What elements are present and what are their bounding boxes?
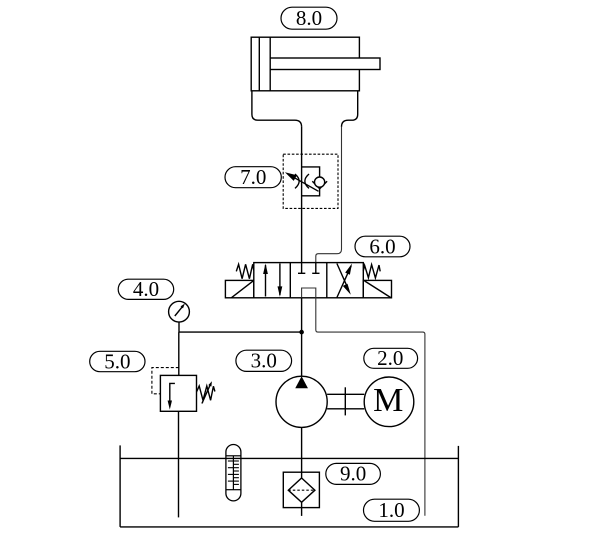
- wire T valve to tank: [316, 298, 425, 516]
- junction dot: [299, 330, 304, 335]
- svg-text:M: M: [373, 382, 403, 419]
- relief valve spring: [197, 386, 215, 400]
- filter 9.0: [283, 472, 319, 516]
- shaft coupling: [327, 387, 364, 415]
- oil level gauge: [226, 445, 241, 501]
- wire A line cylinder to valve: [301, 127, 303, 263]
- wire B line cylinder to valve: [316, 127, 342, 263]
- label 6.0: [355, 234, 410, 258]
- right solenoid box: [363, 280, 391, 297]
- label 2.0: [364, 346, 418, 370]
- wire P valve to junction: [301, 298, 303, 377]
- right spring: [363, 265, 380, 278]
- left spring: [236, 264, 254, 278]
- throttle-check valve 7.0 dashed enclosure: [283, 154, 338, 208]
- left solenoid box: [225, 280, 253, 297]
- pressure gauge 4.0: [169, 301, 190, 332]
- relief valve pilot dashed line: [152, 368, 179, 394]
- svg-text:8.0: 8.0: [296, 6, 322, 30]
- throttle orifice arcs: [295, 174, 309, 188]
- check valve bypass loop: [302, 167, 320, 196]
- wire branch to gauge and relief valve: [179, 331, 302, 333]
- relief valve drain wire: [178, 411, 180, 517]
- cylinder rod: [270, 58, 380, 70]
- cylinder mounting funnel: [252, 91, 358, 127]
- pump 3.0: [276, 376, 327, 427]
- svg-text:3.0: 3.0: [251, 349, 277, 373]
- svg-text:9.0: 9.0: [340, 462, 366, 486]
- svg-text:1.0: 1.0: [378, 498, 404, 522]
- label 5.0: [90, 349, 145, 373]
- tank 1.0: [120, 445, 458, 527]
- check valve seat: [312, 181, 327, 188]
- relief valve 5.0 body: [160, 375, 196, 411]
- relief valve 5.0 inlet wire: [178, 332, 180, 375]
- label 9.0: [326, 462, 381, 486]
- svg-text:7.0: 7.0: [240, 165, 266, 189]
- cylinder 8.0 body: [251, 37, 359, 91]
- left position arrows: [263, 264, 282, 297]
- check valve ball: [315, 177, 325, 187]
- pump suction wire: [301, 427, 303, 478]
- right position crossed arrows: [337, 264, 352, 298]
- cylinder piston: [259, 37, 270, 91]
- directional valve 6.0 body: [254, 263, 363, 298]
- relief valve adjust arrow: [202, 381, 212, 403]
- label 7.0: [225, 165, 281, 189]
- label 3.0: [236, 349, 292, 373]
- label 8.0: [281, 6, 337, 30]
- svg-text:5.0: 5.0: [104, 349, 130, 373]
- svg-text:6.0: 6.0: [369, 234, 395, 258]
- label 1.0: [364, 498, 420, 522]
- svg-text:4.0: 4.0: [133, 277, 159, 301]
- motor 2.0: [364, 377, 414, 427]
- relief valve arrow: [168, 383, 175, 409]
- leader arrow 7.0: [285, 172, 319, 191]
- center position blocked ports: [298, 263, 320, 298]
- label 4.0: [118, 277, 174, 301]
- svg-text:2.0: 2.0: [377, 346, 403, 370]
